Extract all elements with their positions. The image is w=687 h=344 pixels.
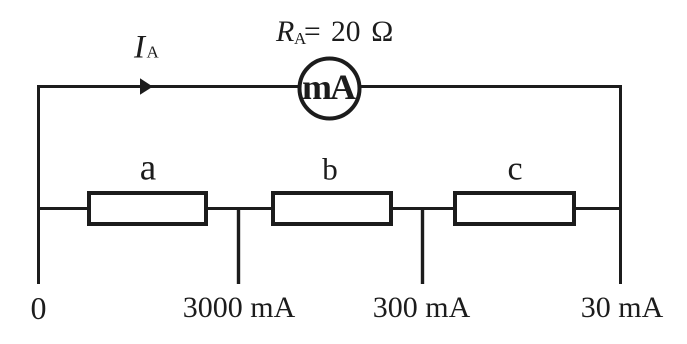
svg-text:30 mA: 30 mA [581,291,664,324]
svg-text:A: A [147,43,160,62]
node 3000mA stub wire [237,207,240,284]
resistor c [455,193,574,224]
node label 300 mA [373,291,471,324]
resistor a [89,193,206,224]
svg-text:I: I [133,30,147,66]
wire top left segment [37,85,299,88]
wire left vertical [37,85,40,284]
wire segment b to c [391,207,455,210]
svg-text:3000 mA: 3000 mA [183,291,296,324]
ammeter mA [300,59,360,119]
label R_A = 20 Ohm [275,15,394,48]
svg-text:c: c [507,151,522,188]
resistor b [273,193,391,224]
svg-text:b: b [322,152,338,187]
node 300mA stub wire [421,207,424,284]
wire segment a to b [206,207,273,210]
label I_A [133,30,160,66]
svg-text:= 20 Ω: = 20 Ω [304,16,394,48]
svg-text:a: a [140,148,156,189]
svg-text:0: 0 [31,290,47,326]
label b [322,152,338,187]
svg-text:300 mA: 300 mA [373,291,471,324]
wire top right segment [360,85,622,88]
wire segment c to right vertical [574,207,622,210]
label a [140,148,156,189]
wire right vertical [619,85,622,284]
wire middle segment left to resistor a [37,207,89,210]
node label 30 mA [581,291,664,324]
svg-text:R: R [275,15,294,48]
node label 0 [31,290,47,326]
node label 3000 mA [183,291,296,324]
svg-text:mA: mA [302,67,356,107]
label c [507,151,522,188]
arrow current direction [140,78,153,95]
